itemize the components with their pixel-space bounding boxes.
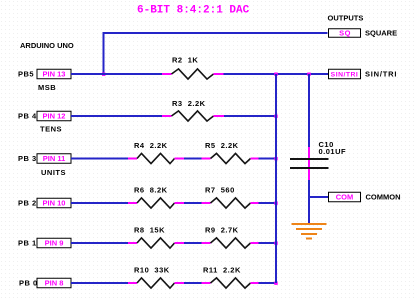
resistor R3 [172,111,214,121]
resistor R4 [137,153,175,163]
node junction bus A row1 [274,73,277,76]
connector PIN 13 [37,69,71,79]
svg-text:PIN 11: PIN 11 [43,154,66,163]
pin C10.1 [308,147,310,180]
pin R5.1 [202,158,211,160]
svg-text:SIN/TRI: SIN/TRI [331,72,359,79]
value label R8 15K [134,226,165,235]
wire cap bus upper [308,74,310,147]
pin R11.2 [251,282,259,284]
svg-text:6-BIT 8:4:2:1 DAC: 6-BIT 8:4:2:1 DAC [137,5,250,17]
wire R4 to R5 [184,158,202,160]
label COMMON [366,193,401,202]
wire R8 to R9 [184,242,202,244]
value label R4 2.2K [134,141,168,150]
pin R7.2 [251,202,259,204]
svg-text:PIN 12: PIN 12 [43,112,66,121]
svg-text:PB 3: PB 3 [18,154,37,163]
wire PB3 to R4 [71,158,128,160]
svg-text:SQUARE: SQUARE [365,29,397,38]
svg-text:OUTPUTS: OUTPUTS [328,14,364,23]
node junction bus A row3 [274,157,277,160]
wire PB1 to R8 [71,242,128,244]
svg-text:PB 2: PB 2 [18,199,37,208]
pin R3.2 [214,115,225,117]
label SIN/TRI [365,70,397,79]
wire R3 to bus A [224,115,277,117]
pin R5.2 [251,158,259,160]
pin R6.1 [128,202,137,204]
label PB 0 [19,279,38,288]
svg-text:SIN/TRI: SIN/TRI [365,70,397,79]
connector SQ output box [329,29,361,38]
label TENS [40,125,62,134]
pin R8.1 [128,242,137,244]
svg-text:PB5: PB5 [18,70,34,79]
svg-text:PIN 13: PIN 13 [43,70,66,79]
connector PIN 9 [37,238,71,248]
pin R8.2 [175,242,185,244]
wire R9 to bus A [259,242,278,244]
svg-text:R11 2.2K: R11 2.2K [203,266,241,275]
pin R7.1 [202,202,211,204]
connector SIN/TRI output box [329,69,361,79]
label SQUARE [365,29,397,38]
svg-text:UNITS: UNITS [41,168,66,177]
resistor R11 [211,278,251,288]
label PB5 [18,70,34,79]
wire cap bus lower to ground [308,180,310,224]
node junction cap bus row1 [307,73,310,76]
resistor R7 [211,198,251,208]
svg-text:R4 2.2K: R4 2.2K [134,141,168,150]
svg-text:PB 0: PB 0 [19,279,38,288]
value label R5 2.2K [205,141,239,150]
svg-text:TENS: TENS [40,125,62,134]
value label R11 2.2K [203,266,241,275]
ground [292,224,327,239]
wire: top net from junction to SQ output [104,33,328,74]
svg-text:R2 1K: R2 1K [172,56,198,65]
svg-text:0.01UF: 0.01UF [319,147,347,156]
connector COM box [329,192,361,202]
label MSB [38,83,56,92]
connector PIN 12 [37,111,71,121]
svg-text:COMMON: COMMON [366,193,401,202]
pin R10.2 [175,282,185,284]
svg-text:SQ: SQ [339,29,351,38]
pin R2.1 [162,73,172,75]
node junction bus A row5 [274,242,277,245]
pin R9.1 [202,242,211,244]
svg-text:PIN 10: PIN 10 [43,199,66,208]
svg-text:ARDUINO UNO: ARDUINO UNO [20,41,74,50]
svg-text:PB 1: PB 1 [18,239,37,248]
label UNITS [41,168,66,177]
resistor R2 [172,69,214,79]
pin R9.2 [251,242,259,244]
pin R10.1 [128,282,137,284]
node junction bus A row6 [274,282,277,285]
label ARDUINO UNO [20,41,74,50]
value label R9 2.7K [205,226,239,235]
wire R11 to bus A [259,282,278,284]
node junction bus A row2 [274,115,277,118]
label PB 2 [18,199,37,208]
schematic title [137,5,250,17]
svg-text:R8 15K: R8 15K [134,226,165,235]
wire COM stub [309,196,329,198]
svg-text:R3 2.2K: R3 2.2K [172,99,206,108]
wire R10 to R11 [184,282,202,284]
wire PB0 to R10 [71,282,128,284]
value label R7 560 [205,186,235,195]
pin R3.1 [162,115,172,117]
wire bus A vertical [275,74,277,283]
pin R6.2 [175,202,185,204]
node junction at PB5 wire and top net [102,73,105,76]
svg-text:MSB: MSB [38,83,56,92]
wire PB5 to R2 [71,73,162,75]
label PB 4 [18,112,37,121]
svg-text:R5 2.2K: R5 2.2K [205,141,239,150]
connector PIN 11 [37,154,71,164]
resistor R10 [137,278,175,288]
node junction bus A row4 [274,202,277,205]
resistor R9 [211,238,251,248]
value label 0.01UF [319,147,347,156]
capacitor C10 [290,159,329,168]
svg-text:R9 2.7K: R9 2.7K [205,226,239,235]
label PB 3 [18,154,37,163]
pin R4.2 [175,158,185,160]
resistor R6 [137,198,175,208]
label PB 1 [18,239,37,248]
value label R6 8.2K [134,186,168,195]
connector PIN 8 [37,278,71,288]
label OUTPUTS [328,14,364,23]
connector PIN 10 [37,198,71,208]
wire R5 to bus A [259,158,278,160]
value label R3 2.2K [172,99,206,108]
wire R6 to R7 [184,202,202,204]
pin R11.1 [202,282,211,284]
resistor R5 [211,153,251,163]
svg-text:PB 4: PB 4 [18,112,37,121]
svg-text:R7 560: R7 560 [205,186,235,195]
wire PB2 to R6 [71,202,128,204]
pin C10.2 [308,169,310,180]
svg-text:R6 8.2K: R6 8.2K [134,186,168,195]
wire R2 to SIN/TRI [224,73,329,75]
resistor R8 [137,238,175,248]
svg-text:PIN 8: PIN 8 [45,279,64,288]
pin R2.2 [214,73,224,75]
value label C10 [319,140,334,149]
pin R4.1 [128,158,137,160]
svg-text:COM: COM [336,193,354,202]
wire PB4 to R3 [71,115,162,117]
wire R7 to bus A [259,202,278,204]
svg-text:R10 33K: R10 33K [134,266,170,275]
svg-text:PIN 9: PIN 9 [45,239,64,248]
value label R10 33K [134,266,170,275]
value label R2 1K [172,56,198,65]
